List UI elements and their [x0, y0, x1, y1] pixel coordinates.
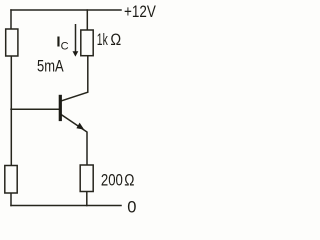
- wire: collector diagonal and vertical up to 1k resistor: [62, 56, 88, 101]
- resistor R2 (lower bias resistor, bottom-left box): [5, 166, 17, 194]
- svg-text:200: 200: [101, 171, 123, 189]
- wire: 200 ohm resistor bottom to ground rail: [86, 192, 88, 206]
- wire: left vertical from rail to R1 top: [10, 10, 12, 29]
- wire: base branch from divider to transistor base: [11, 108, 59, 110]
- svg-text:0: 0: [127, 198, 136, 216]
- wire: 1k resistor top to supply rail: [86, 10, 88, 30]
- wire: left vertical from R2 bottom to ground rail: [10, 193, 12, 206]
- svg-text:Ω: Ω: [110, 31, 121, 49]
- svg-text:C: C: [61, 40, 69, 52]
- transistor Q1 emitter arrowhead: [76, 123, 84, 130]
- svg-text:Ω: Ω: [124, 171, 134, 189]
- svg-text:+12V: +12V: [124, 3, 156, 21]
- wire: +12V supply rail (top horizontal): [11, 9, 121, 11]
- wire: emitter diagonal and vertical down to 200 ohm resistor: [62, 115, 88, 165]
- wire: ground rail (bottom horizontal): [11, 205, 121, 207]
- svg-text:1k: 1k: [97, 31, 108, 49]
- resistor R1 (upper bias resistor, top-left box): [6, 29, 18, 56]
- resistor 200ohm (emitter box): [80, 165, 93, 192]
- transistor Q1 base bar: [59, 95, 62, 121]
- current arrow Ic (line): [75, 24, 77, 52]
- svg-text:5mA: 5mA: [37, 57, 64, 75]
- paper background: [0, 0, 167, 227]
- current arrow Ic (head): [73, 51, 79, 56]
- wire: left vertical between R1 and R2 (with base tap): [10, 56, 12, 166]
- resistor 1kohm (collector load box): [81, 30, 93, 56]
